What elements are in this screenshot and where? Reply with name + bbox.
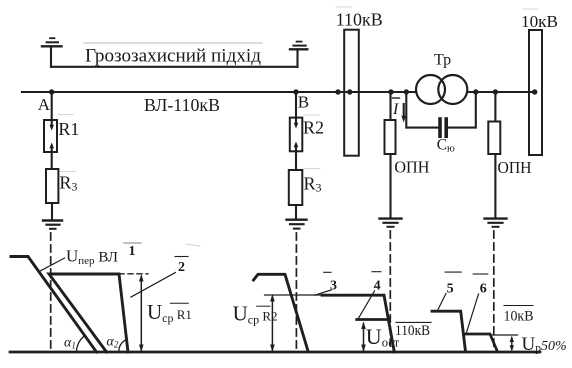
transformer Тр <box>416 75 467 104</box>
callout line to label Uпер ВЛ <box>41 258 65 271</box>
svg-text:ОПН: ОПН <box>394 158 429 177</box>
label 5 with overline and callout <box>445 271 461 273</box>
node bypass-right <box>473 89 478 94</box>
wave 1: incoming surge Uпер ВЛ <box>11 257 97 353</box>
dashed drop line from node B ground <box>295 233 297 351</box>
node inside 110kV busbar <box>347 89 352 94</box>
time axis baseline <box>10 351 540 354</box>
wire: main overhead line ВЛ-110кВ <box>22 91 416 93</box>
svg-text:3: 3 <box>330 279 337 294</box>
resistor R2 (with inward arrows) <box>290 92 303 151</box>
wire R3 to ground <box>295 205 297 218</box>
node A <box>49 89 54 94</box>
svg-text:I: I <box>392 101 399 118</box>
ground top-right (inverted) <box>290 42 307 67</box>
label Uср R1 with overline <box>170 302 188 304</box>
svg-text:10кВ: 10кВ <box>504 309 534 325</box>
label 3 with overline and callout <box>324 271 331 273</box>
dashed drop line from ОПН-right ground <box>493 231 495 350</box>
svg-text:Тр: Тр <box>434 52 451 69</box>
surge arrester ОПН left <box>385 92 396 217</box>
ground (branch A) <box>43 221 62 229</box>
node terminal inside 10kV busbar <box>532 89 537 94</box>
measuring arrow Uост <box>361 322 366 353</box>
svg-text:2: 2 <box>178 260 185 275</box>
svg-text:ВЛ-110кВ: ВЛ-110кВ <box>144 95 220 115</box>
wire R3 to ground <box>51 203 53 219</box>
node bypass-left <box>404 89 409 94</box>
wave 4: residual voltage crest <box>357 318 389 321</box>
wave 2: voltage at R1 <box>49 274 128 352</box>
wire: lightning-protection approach span <box>51 66 298 68</box>
svg-text:5: 5 <box>447 282 454 297</box>
svg-text:Грозозахисний підхід: Грозозахисний підхід <box>85 46 261 67</box>
surge arrester ОПН right <box>488 92 500 217</box>
node ОПН-right tap <box>493 89 498 94</box>
ground (ОПН right) <box>485 219 507 227</box>
label 6 with overline and callout <box>473 273 488 275</box>
ground (branch B) <box>287 220 307 229</box>
resistor R3 (branch B) <box>289 170 303 205</box>
measuring arrow Uср R1 <box>139 274 144 352</box>
wave at R2 <box>254 274 309 351</box>
svg-text:110кВ: 110кВ <box>336 10 383 30</box>
wire bypass right <box>448 92 476 128</box>
busbar 10kV <box>529 30 542 155</box>
capacitor Сю <box>440 119 446 136</box>
svg-text:B: B <box>298 93 309 112</box>
dashed drop line from ОПН-left ground <box>389 231 391 351</box>
wire R2-R3 <box>295 151 297 170</box>
angle alpha1 arc <box>76 336 84 352</box>
label 10кВ with overline <box>504 305 533 307</box>
ground top-left (inverted, above approach line) <box>42 38 62 67</box>
svg-text:10кВ: 10кВ <box>521 12 558 31</box>
measuring arrow Uр50% <box>510 336 514 352</box>
ground (ОПН left) <box>380 219 402 227</box>
dashed extension of wave 2 crest <box>119 273 148 275</box>
node B <box>293 89 298 94</box>
current I label and arrow <box>393 98 407 123</box>
label 2 with overline and callout <box>175 256 188 258</box>
angle alpha2 arc <box>119 340 127 352</box>
wire R1-R3 <box>51 152 53 169</box>
wave 6: limited voltage at 10kV <box>464 334 497 351</box>
svg-text:R1: R1 <box>58 119 79 139</box>
measuring arrow Uср R2 <box>270 294 275 352</box>
svg-text:6: 6 <box>480 282 487 297</box>
wire bypass left <box>406 92 438 128</box>
label 110кВ with overline <box>396 321 431 323</box>
svg-text:R2: R2 <box>303 118 324 138</box>
label Uср R2 with overline <box>257 305 270 307</box>
svg-text:110кВ: 110кВ <box>395 323 430 339</box>
svg-text:ОПН: ОПН <box>498 158 532 177</box>
busbar 110kV <box>344 30 359 156</box>
level line Uр50% <box>491 334 518 336</box>
svg-text:1: 1 <box>129 244 136 259</box>
label 4 with overline and callout <box>372 271 381 273</box>
node ОПН-left tap <box>388 89 393 94</box>
dashed drop line from node A ground <box>50 233 52 351</box>
wave 5: voltage at 10kV bus <box>432 311 465 350</box>
resistor R3 (branch A) <box>46 169 58 203</box>
wave 3: thin level line + crest at 110kV bus <box>265 294 326 296</box>
svg-text:A: A <box>38 95 51 114</box>
node left of 110kV busbar <box>335 89 340 94</box>
faint scan artifacts <box>58 7 538 246</box>
resistor R1 (with inward arrows) <box>44 92 57 152</box>
